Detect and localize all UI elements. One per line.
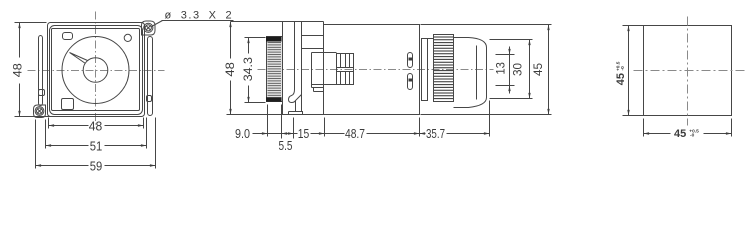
front view: face inner rect: [52, 29, 140, 111]
right view: centerline horizontal: [634, 70, 747, 72]
front view: window rounded rect: [63, 33, 73, 40]
dim 5.5: inside arrows: [268, 133, 282, 135]
label 45 +0.5/-0 bottom: [674, 128, 699, 140]
middle view: centerline: [258, 69, 494, 71]
svg-text:13: 13: [493, 62, 507, 75]
front view: top-right ear: [142, 21, 156, 35]
middle view: knob body: [266, 37, 283, 102]
dim 51 bottom: extension lines: [45, 120, 47, 149]
middle view: rear slot upper: [408, 53, 413, 68]
svg-text:45: 45: [531, 63, 545, 76]
middle view: nose upper shelf: [302, 48, 324, 50]
svg-text:48: 48: [89, 118, 103, 133]
middle view: cap face contour: [476, 46, 478, 100]
svg-text:ø 3.3 X 2: ø 3.3 X 2: [165, 10, 234, 22]
front view: indicator circle: [124, 34, 131, 41]
svg-text:35.7: 35.7: [426, 126, 445, 141]
middle view: bracket hook lower vertical: [295, 101, 297, 112]
label 45 +0.5/-0 vertical: [615, 61, 627, 85]
dim 48 bottom: extension lines: [48, 118, 50, 129]
middle view: rear slot lower: [408, 74, 413, 90]
front view: knob inner circle: [83, 58, 108, 83]
front view: bottom-left ear: [34, 105, 46, 118]
front view: case outer square: [48, 23, 145, 117]
middle view: body outline: [324, 25, 420, 115]
dim 45 middle: dimension line: [548, 25, 550, 115]
front view: right latch strip: [148, 37, 153, 116]
middle view: shaft knurl: [337, 54, 354, 85]
dim 30: dimension line: [529, 40, 531, 99]
right view: square: [644, 26, 732, 116]
middle view: bracket foot: [289, 112, 303, 115]
dim 48 vertical: extension lines: [15, 22, 47, 24]
dim 59 bottom: dimension line: [36, 165, 89, 167]
svg-text:48: 48: [223, 62, 237, 77]
right view: centerline vertical: [687, 17, 689, 126]
dim 34.3: extension lines: [245, 37, 266, 39]
front view: left latch slider: [39, 90, 45, 96]
front view: pointer wedge: [70, 53, 88, 64]
dim 45 tol bottom: dimension line: [644, 133, 671, 135]
svg-text:34.3: 34.3: [241, 57, 255, 81]
dim 48 vertical: dimension line: [19, 23, 21, 58]
dim 45 tol vertical: dimension line: [628, 26, 630, 116]
svg-text:9.0: 9.0: [235, 126, 250, 141]
svg-text:15: 15: [298, 126, 310, 141]
dim 48 middle: extension lines: [227, 114, 289, 116]
svg-text:-0: -0: [690, 133, 695, 139]
dim 48 bottom: dimension line: [49, 125, 89, 127]
svg-text:51: 51: [90, 138, 103, 153]
middle view: bracket: [289, 22, 302, 103]
svg-text:45: 45: [674, 128, 686, 140]
dim 45 tol vertical: extension lines: [623, 25, 647, 27]
front view: centerline horizontal: [28, 70, 165, 72]
front view: dial outer circle: [62, 37, 129, 104]
dim 13: extension lines: [496, 54, 515, 56]
dim 45 tol bottom: extension lines: [643, 119, 645, 137]
dim 13: dimension line: [509, 47, 511, 55]
svg-text:48: 48: [11, 63, 25, 77]
svg-text:5.5: 5.5: [279, 138, 293, 153]
dim 30: extension lines: [490, 39, 533, 41]
front view: bezel outer: [50, 26, 143, 115]
middle view: bezel face stub upper: [282, 22, 284, 37]
middle view: nose collar: [312, 53, 337, 88]
front view: left latch strip: [39, 36, 43, 106]
middle view: bezel face stub lower: [282, 102, 284, 115]
svg-text:59: 59: [90, 158, 103, 173]
dim 51 bottom: dimension line: [46, 145, 89, 147]
front view: top-right screw: [144, 23, 153, 32]
front view: centerline vertical: [95, 12, 97, 125]
middle view: socket flange: [422, 39, 428, 101]
dim 35.7: dimension line: [420, 133, 426, 135]
svg-text:-0: -0: [620, 66, 626, 71]
middle view: latch arm: [231, 22, 324, 36]
bottom dims chain: extension lines: [267, 105, 269, 137]
dim 34.3: dimension line: [248, 38, 250, 54]
dim 48 middle: dimension line: [230, 22, 232, 59]
svg-text:30: 30: [510, 63, 524, 76]
dim 59 bottom: extension lines: [35, 120, 37, 169]
dim 9.0: dimension line with outside arrow: [253, 133, 268, 135]
front view: bottom-left screw: [35, 107, 44, 116]
front view: reset square: [62, 99, 74, 110]
middle view: rounded cap: [454, 38, 487, 108]
svg-text:48.7: 48.7: [345, 126, 365, 141]
label hole callout: leader: [152, 21, 163, 27]
dim 48.7: dimension line: [325, 133, 345, 135]
front view: right latch slider: [147, 96, 152, 102]
dim 45 middle: extension lines: [421, 24, 552, 26]
svg-text:45: 45: [615, 73, 627, 85]
middle view: socket knurled ring: [434, 35, 454, 102]
middle view: nose lower step: [312, 88, 324, 92]
dim 15: dimension line: [294, 133, 298, 135]
middle view: flange-ring shelf: [428, 38, 434, 40]
